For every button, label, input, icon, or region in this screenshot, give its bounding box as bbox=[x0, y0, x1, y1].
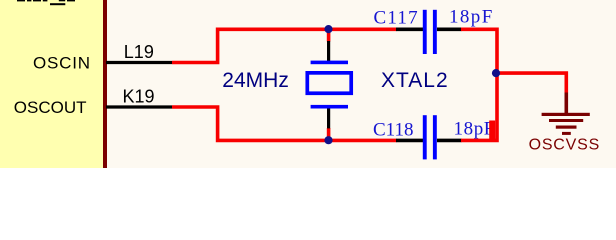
svg-text:18pF: 18pF bbox=[454, 119, 495, 140]
svg-text:24MHz: 24MHz bbox=[222, 69, 289, 92]
junction (crystal top) bbox=[324, 25, 332, 33]
ground bar 1 bbox=[542, 113, 590, 116]
svg-text:OSCOUT: OSCOUT bbox=[14, 98, 87, 117]
svg-text:18pF: 18pF bbox=[449, 6, 494, 27]
capacitor C118 plates bbox=[423, 115, 437, 159]
power ground OSCVSS stem bbox=[564, 93, 568, 114]
crystal Y1 lead (bottom, black) bbox=[327, 109, 330, 129]
ground bar 2 bbox=[549, 119, 583, 122]
net label (cut off at top) bbox=[17, 0, 75, 5]
crystal Y1 bottom plate bbox=[311, 105, 348, 109]
svg-text:C118: C118 bbox=[373, 120, 413, 141]
capacitor C117 lead (right, black) bbox=[437, 27, 462, 31]
wire OSCIN to C117 (left/top) bbox=[172, 29, 397, 62]
wire stub to crystal top bbox=[327, 29, 331, 41]
crystal Y1 lead (top, black) bbox=[327, 41, 330, 61]
svg-text:K19: K19 bbox=[123, 86, 155, 106]
wire stub from crystal bottom bbox=[327, 128, 331, 140]
pin OSCOUT (K19) bbox=[106, 105, 172, 108]
junction (crystal bottom) bbox=[324, 136, 332, 144]
wire ground branch bbox=[497, 73, 566, 93]
ground bar 3 bbox=[556, 126, 577, 129]
capacitor C118 lead (left, black) bbox=[396, 139, 423, 143]
capacitor C117 plates bbox=[423, 10, 437, 54]
crystal Y1 body bbox=[307, 73, 351, 93]
wire overlap stub (bottom-right corner) bbox=[489, 121, 495, 141]
IC U1 body (partial, left) bbox=[0, 0, 103, 168]
wire OSCOUT to C118 (left/bottom) bbox=[172, 107, 397, 140]
wire right vertical (C117 to C118) bbox=[461, 29, 497, 140]
svg-text:OSCIN: OSCIN bbox=[33, 53, 91, 72]
ground bar 4 bbox=[562, 132, 571, 135]
svg-text:C117: C117 bbox=[374, 7, 419, 28]
pin OSCIN (L19) bbox=[106, 61, 172, 64]
svg-text:XTAL2: XTAL2 bbox=[381, 69, 449, 92]
capacitor C117 lead (left, black) bbox=[396, 27, 423, 31]
crystal Y1 top plate bbox=[311, 61, 348, 65]
junction (right vertical / ground branch) bbox=[492, 69, 500, 77]
svg-text:OSCVSS: OSCVSS bbox=[529, 137, 601, 154]
svg-text:L19: L19 bbox=[124, 42, 154, 62]
capacitor C118 lead (right, black) bbox=[437, 139, 462, 143]
